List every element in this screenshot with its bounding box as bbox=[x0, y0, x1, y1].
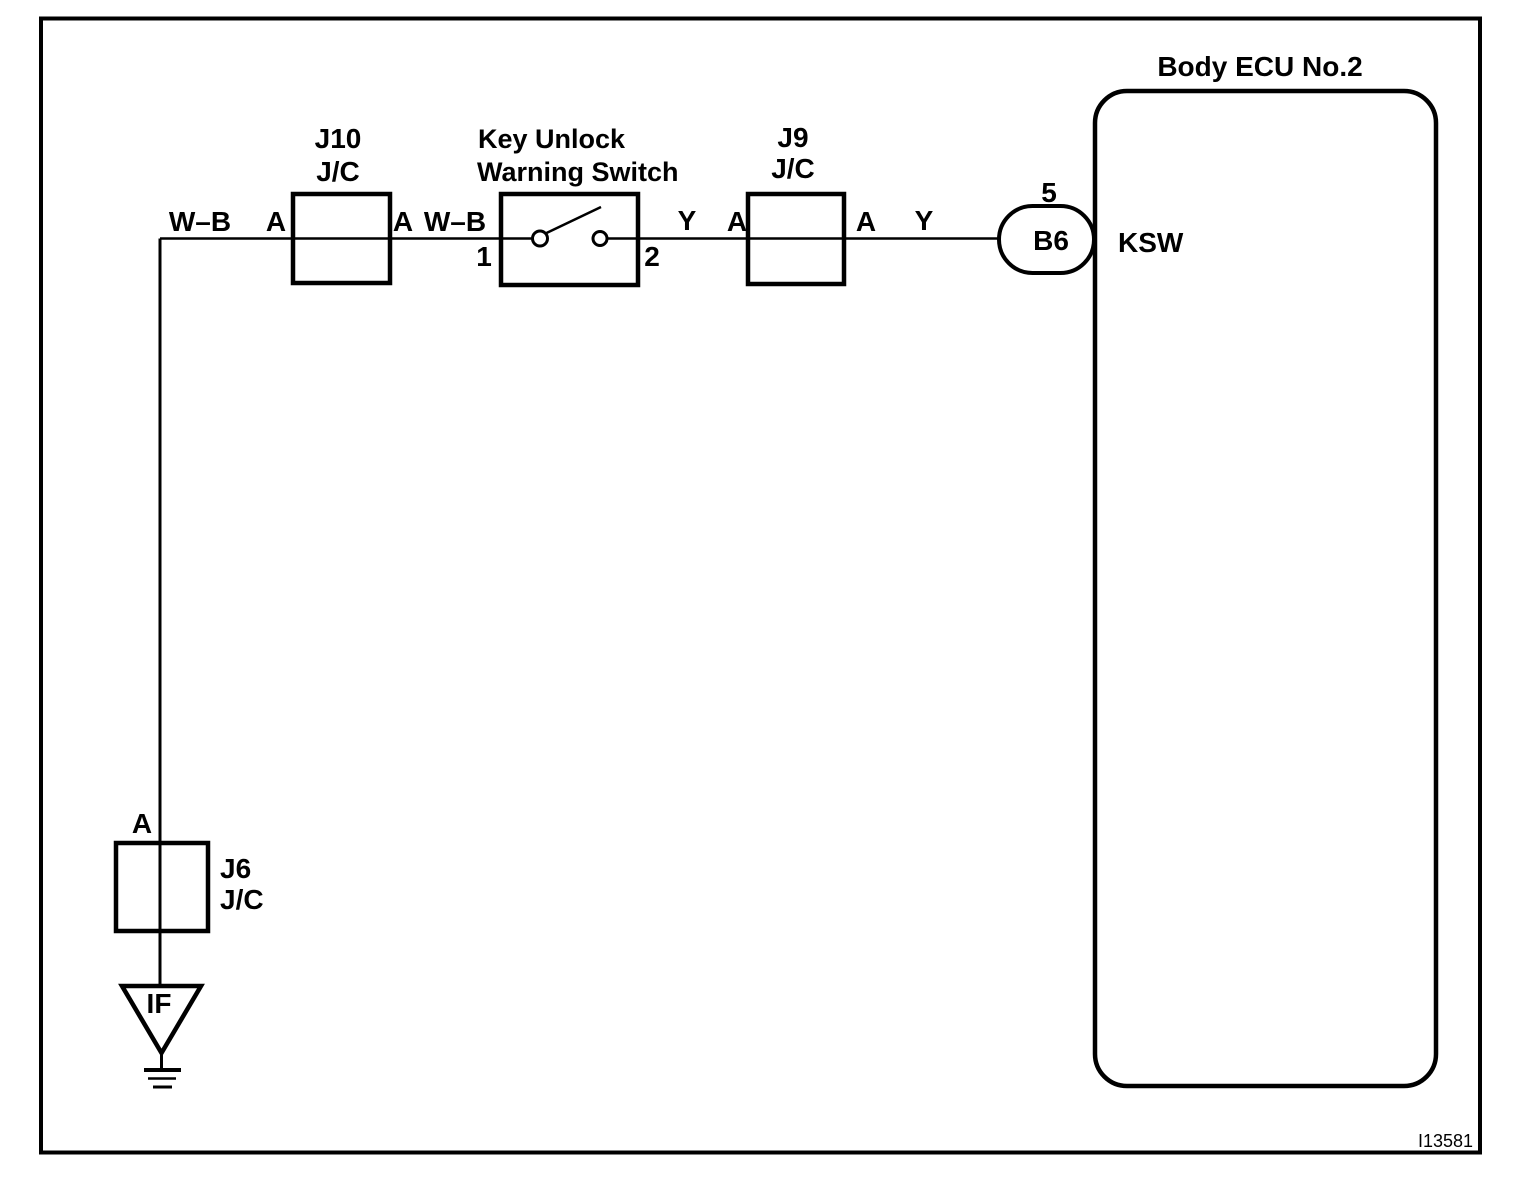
wire W-B vertical (down to ground) bbox=[159, 239, 162, 989]
junction connector J10 J/C bbox=[293, 194, 390, 283]
switch arm bbox=[547, 207, 602, 233]
svg-text:J10: J10 bbox=[315, 123, 362, 154]
switch contact circle pin 2 bbox=[593, 232, 607, 246]
ECU Body ECU No.2 block bbox=[1095, 91, 1436, 1086]
wire W-B horizontal (left segment to switch contact 1) bbox=[160, 237, 533, 240]
svg-text:5: 5 bbox=[1041, 177, 1057, 208]
svg-text:J/C: J/C bbox=[771, 153, 815, 184]
svg-text:I13581: I13581 bbox=[1418, 1131, 1473, 1151]
svg-text:J6: J6 bbox=[220, 853, 251, 884]
svg-text:J9: J9 bbox=[777, 122, 808, 153]
svg-text:A: A bbox=[132, 808, 152, 839]
wire triangle apex to ground bbox=[160, 1053, 163, 1070]
svg-text:Key Unlock: Key Unlock bbox=[478, 124, 626, 154]
svg-text:Y: Y bbox=[915, 205, 934, 236]
svg-text:A: A bbox=[266, 206, 286, 237]
svg-text:A: A bbox=[856, 206, 876, 237]
svg-text:B6: B6 bbox=[1033, 225, 1069, 256]
svg-text:J/C: J/C bbox=[220, 884, 264, 915]
switch contact circle pin 1 bbox=[533, 231, 548, 246]
svg-text:Y: Y bbox=[678, 205, 697, 236]
svg-text:IF: IF bbox=[147, 988, 172, 1019]
junction connector J9 J/C bbox=[748, 194, 844, 284]
ground point IF triangle bbox=[122, 986, 201, 1053]
svg-text:2: 2 bbox=[644, 241, 660, 272]
connector terminal B6 oval bbox=[999, 206, 1094, 273]
svg-text:J/C: J/C bbox=[316, 156, 360, 187]
junction connector J6 J/C bbox=[116, 843, 208, 931]
wire Y horizontal (switch contact 2 to connector B6) bbox=[607, 237, 999, 240]
ground symbol bbox=[144, 1068, 181, 1072]
svg-text:A: A bbox=[393, 206, 413, 237]
svg-text:W–B: W–B bbox=[424, 206, 486, 237]
svg-text:KSW: KSW bbox=[1118, 227, 1184, 258]
svg-text:Body ECU No.2: Body ECU No.2 bbox=[1157, 51, 1362, 82]
svg-text:1: 1 bbox=[476, 241, 492, 272]
svg-text:Warning Switch: Warning Switch bbox=[477, 157, 679, 187]
switch Key Unlock Warning Switch box bbox=[501, 194, 638, 285]
svg-text:W–B: W–B bbox=[169, 206, 231, 237]
svg-text:A: A bbox=[727, 206, 747, 237]
